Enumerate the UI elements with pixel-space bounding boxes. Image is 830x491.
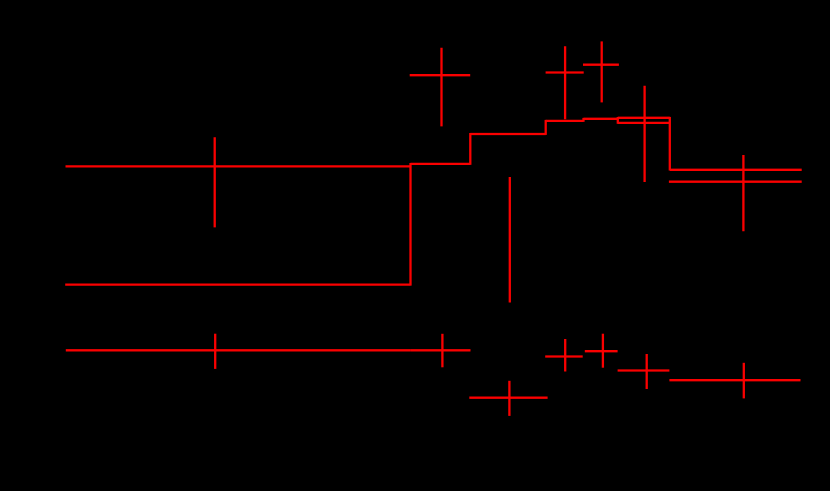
fit histogram step at x=583 [582, 118, 584, 122]
data point 5 x bar [583, 64, 619, 66]
data point 2 y error [440, 48, 442, 127]
data point 7 x bar [669, 181, 802, 183]
fit histogram bin 7 [670, 169, 802, 171]
data point 1 y error [214, 137, 216, 227]
data point 6 y error [643, 86, 645, 182]
data point 5 y error [601, 41, 603, 102]
fit histogram bin 6 [618, 117, 670, 119]
fit histogram bin 2 [411, 163, 471, 165]
fit histogram step at x=470 [469, 133, 471, 165]
data point 7 y error [742, 155, 744, 231]
ratio point 3 y error [508, 381, 510, 416]
ratio point 1 y error [214, 334, 216, 369]
data point 1 x bar [66, 165, 411, 167]
ratio point 4 x bar [545, 355, 583, 357]
fit histogram bin 1 [65, 283, 410, 285]
ratio point 5 y error [602, 334, 604, 368]
ratio point 7 y error [743, 363, 745, 399]
ratio point 3 x bar [469, 397, 547, 399]
ratio point 1 x bar [66, 349, 411, 351]
ratio point 2 x bar [410, 349, 470, 351]
fit histogram step at x=670 [669, 117, 671, 171]
fit histogram step at x=546 [545, 120, 547, 135]
fit histogram bin 4 [546, 120, 584, 122]
ratio point 5 x bar [585, 350, 618, 352]
fit histogram bin 3 [470, 133, 545, 135]
ratio point 7 x bar [669, 379, 800, 381]
ratio point 6 y error [646, 354, 648, 389]
fit histogram bin 5 [584, 118, 618, 120]
ratio point 6 x bar [618, 369, 670, 371]
data point 3 y error [509, 177, 511, 303]
data point 6 x bar [618, 122, 670, 124]
data point 4 x bar [546, 71, 584, 73]
fit histogram step at x=410 [409, 163, 411, 286]
data point 2 x bar [410, 74, 471, 76]
fit histogram step at x=618 [617, 117, 619, 124]
ratio point 4 y error [564, 339, 566, 372]
ratio point 2 y error [441, 334, 443, 368]
data point 4 y error [564, 46, 566, 119]
